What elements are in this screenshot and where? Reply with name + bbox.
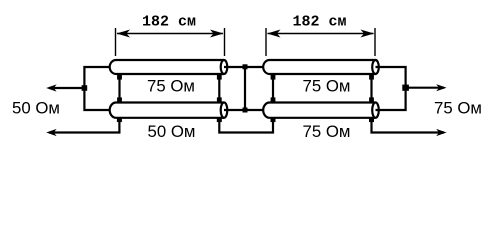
- junction dot S2 right connector top: [369, 75, 374, 80]
- wire bottom right braid to arrow: [372, 120, 445, 133]
- junction dot bottom riser S2 left: [271, 117, 276, 122]
- wire mid bottom braid link: [219, 120, 273, 133]
- svg-text:75 Ом: 75 Ом: [303, 77, 351, 96]
- dimension extension line S1 left: [115, 28, 117, 56]
- arrowhead left bottom: [46, 129, 56, 136]
- wire left input arm: [49, 87, 84, 89]
- wire braid connector right of section 2: [370, 75, 372, 102]
- wire midbus connecting inner conductors of W1,W3 and W2,W4: [224, 67, 263, 110]
- junction dot S2 left connector top: [271, 75, 276, 80]
- junction dot right bus: [402, 85, 409, 91]
- arrowhead right bottom: [436, 129, 446, 136]
- svg-text:50 Ом: 50 Ом: [12, 99, 60, 118]
- coax cable W1 top-left body: [110, 60, 224, 74]
- coax cable W2 open end: [221, 102, 228, 117]
- wire braid connector left of section 2: [272, 75, 274, 102]
- wire left bus from top cable W1 feed to bottom cable feed: [84, 67, 110, 110]
- dimension arrowhead S1 right: [210, 30, 224, 38]
- junction dot S1 right connector bottom: [217, 97, 222, 102]
- junction dot midbus top: [243, 64, 248, 69]
- junction dot S1 left connector top: [117, 75, 122, 80]
- junction dot bottom riser S1 left: [117, 117, 122, 122]
- dimension line S1: [117, 33, 223, 35]
- coax cable W3 top-right body: [263, 60, 375, 74]
- dimension extension line S1 right: [224, 28, 226, 56]
- junction dot S1 right connector top: [217, 75, 222, 80]
- dimension extension line S2 left: [265, 28, 267, 56]
- wire braid connector left of section 1: [118, 75, 120, 102]
- junction dot S2 right connector bottom: [369, 97, 374, 102]
- wire right output arm: [406, 87, 444, 89]
- svg-text:182 см: 182 см: [292, 14, 346, 31]
- coax cable W4 bottom-right body: [263, 103, 375, 118]
- coax cable W1 open end: [221, 60, 228, 74]
- svg-text:75 Ом: 75 Ом: [434, 99, 482, 118]
- junction dot S1 left connector bottom: [117, 97, 122, 102]
- junction dot S2 left connector bottom: [271, 97, 276, 102]
- coax cable W4 open end: [372, 102, 379, 117]
- wire braid connector right of section 1: [218, 75, 220, 102]
- coax cable W3 open end: [372, 60, 379, 74]
- arrowhead left input: [46, 84, 56, 91]
- svg-text:182 см: 182 см: [142, 14, 196, 31]
- svg-text:75 Ом: 75 Ом: [303, 122, 351, 141]
- junction dot midbus bottom: [243, 108, 248, 113]
- svg-text:75 Ом: 75 Ом: [147, 76, 195, 95]
- svg-text:50 Ом: 50 Ом: [148, 122, 196, 141]
- arrowhead right output: [436, 84, 446, 91]
- dimension extension line S2 right: [374, 28, 376, 56]
- junction dot bottom riser S1 right: [217, 117, 222, 122]
- wire right bus from W3,W4 inner conductors: [376, 67, 406, 110]
- dimension arrowhead S1 left: [117, 30, 131, 38]
- dimension arrowhead S2 left: [267, 30, 281, 38]
- dimension line S2: [268, 33, 374, 35]
- coax cable W2 bottom-left body: [110, 103, 224, 118]
- junction dot left bus: [82, 85, 88, 91]
- junction dot bottom riser S2 right: [369, 117, 374, 122]
- wire bottom left braid to arrow: [49, 120, 119, 133]
- dimension arrowhead S2 right: [361, 30, 375, 38]
